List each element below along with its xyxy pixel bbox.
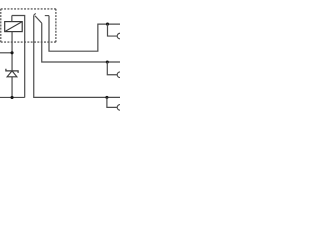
wire row1 drop to terminal	[108, 24, 118, 36]
diode D1 zener triangle	[7, 71, 17, 77]
contact NC terminal wire down to row 3	[34, 15, 120, 97]
node row1 junction	[106, 23, 109, 26]
relay K1 dashed enclosure	[1, 9, 56, 42]
node rail junction	[11, 96, 14, 99]
node coil- junction	[11, 51, 14, 54]
wire row3 drop to terminal	[107, 97, 117, 107]
wire bottom rail to left edge	[0, 96, 25, 98]
diode D1 zener cathode bar	[6, 69, 18, 73]
node row3 junction	[105, 96, 108, 99]
contact blade	[35, 16, 42, 23]
wire coil top stub	[11, 16, 13, 22]
wire coil bottom through diode to rail	[11, 32, 13, 98]
wire coil- tap to left edge	[0, 52, 12, 54]
coil K1 rectangle	[5, 22, 23, 32]
terminal circle row2	[117, 72, 123, 78]
terminal circle row3	[117, 105, 123, 111]
wire coil top over to right and down to bottom rail	[12, 16, 25, 98]
wire row2 drop to terminal	[107, 62, 117, 75]
coil diagonal	[5, 22, 23, 32]
contact NO tick	[45, 15, 49, 17]
terminal circle row1	[117, 33, 123, 39]
contact NO wire down, right, up to row 1	[49, 16, 120, 52]
node row2 junction	[106, 60, 109, 63]
contact pole wire down to row 2	[42, 23, 120, 62]
contact NC tick	[34, 13, 36, 15]
